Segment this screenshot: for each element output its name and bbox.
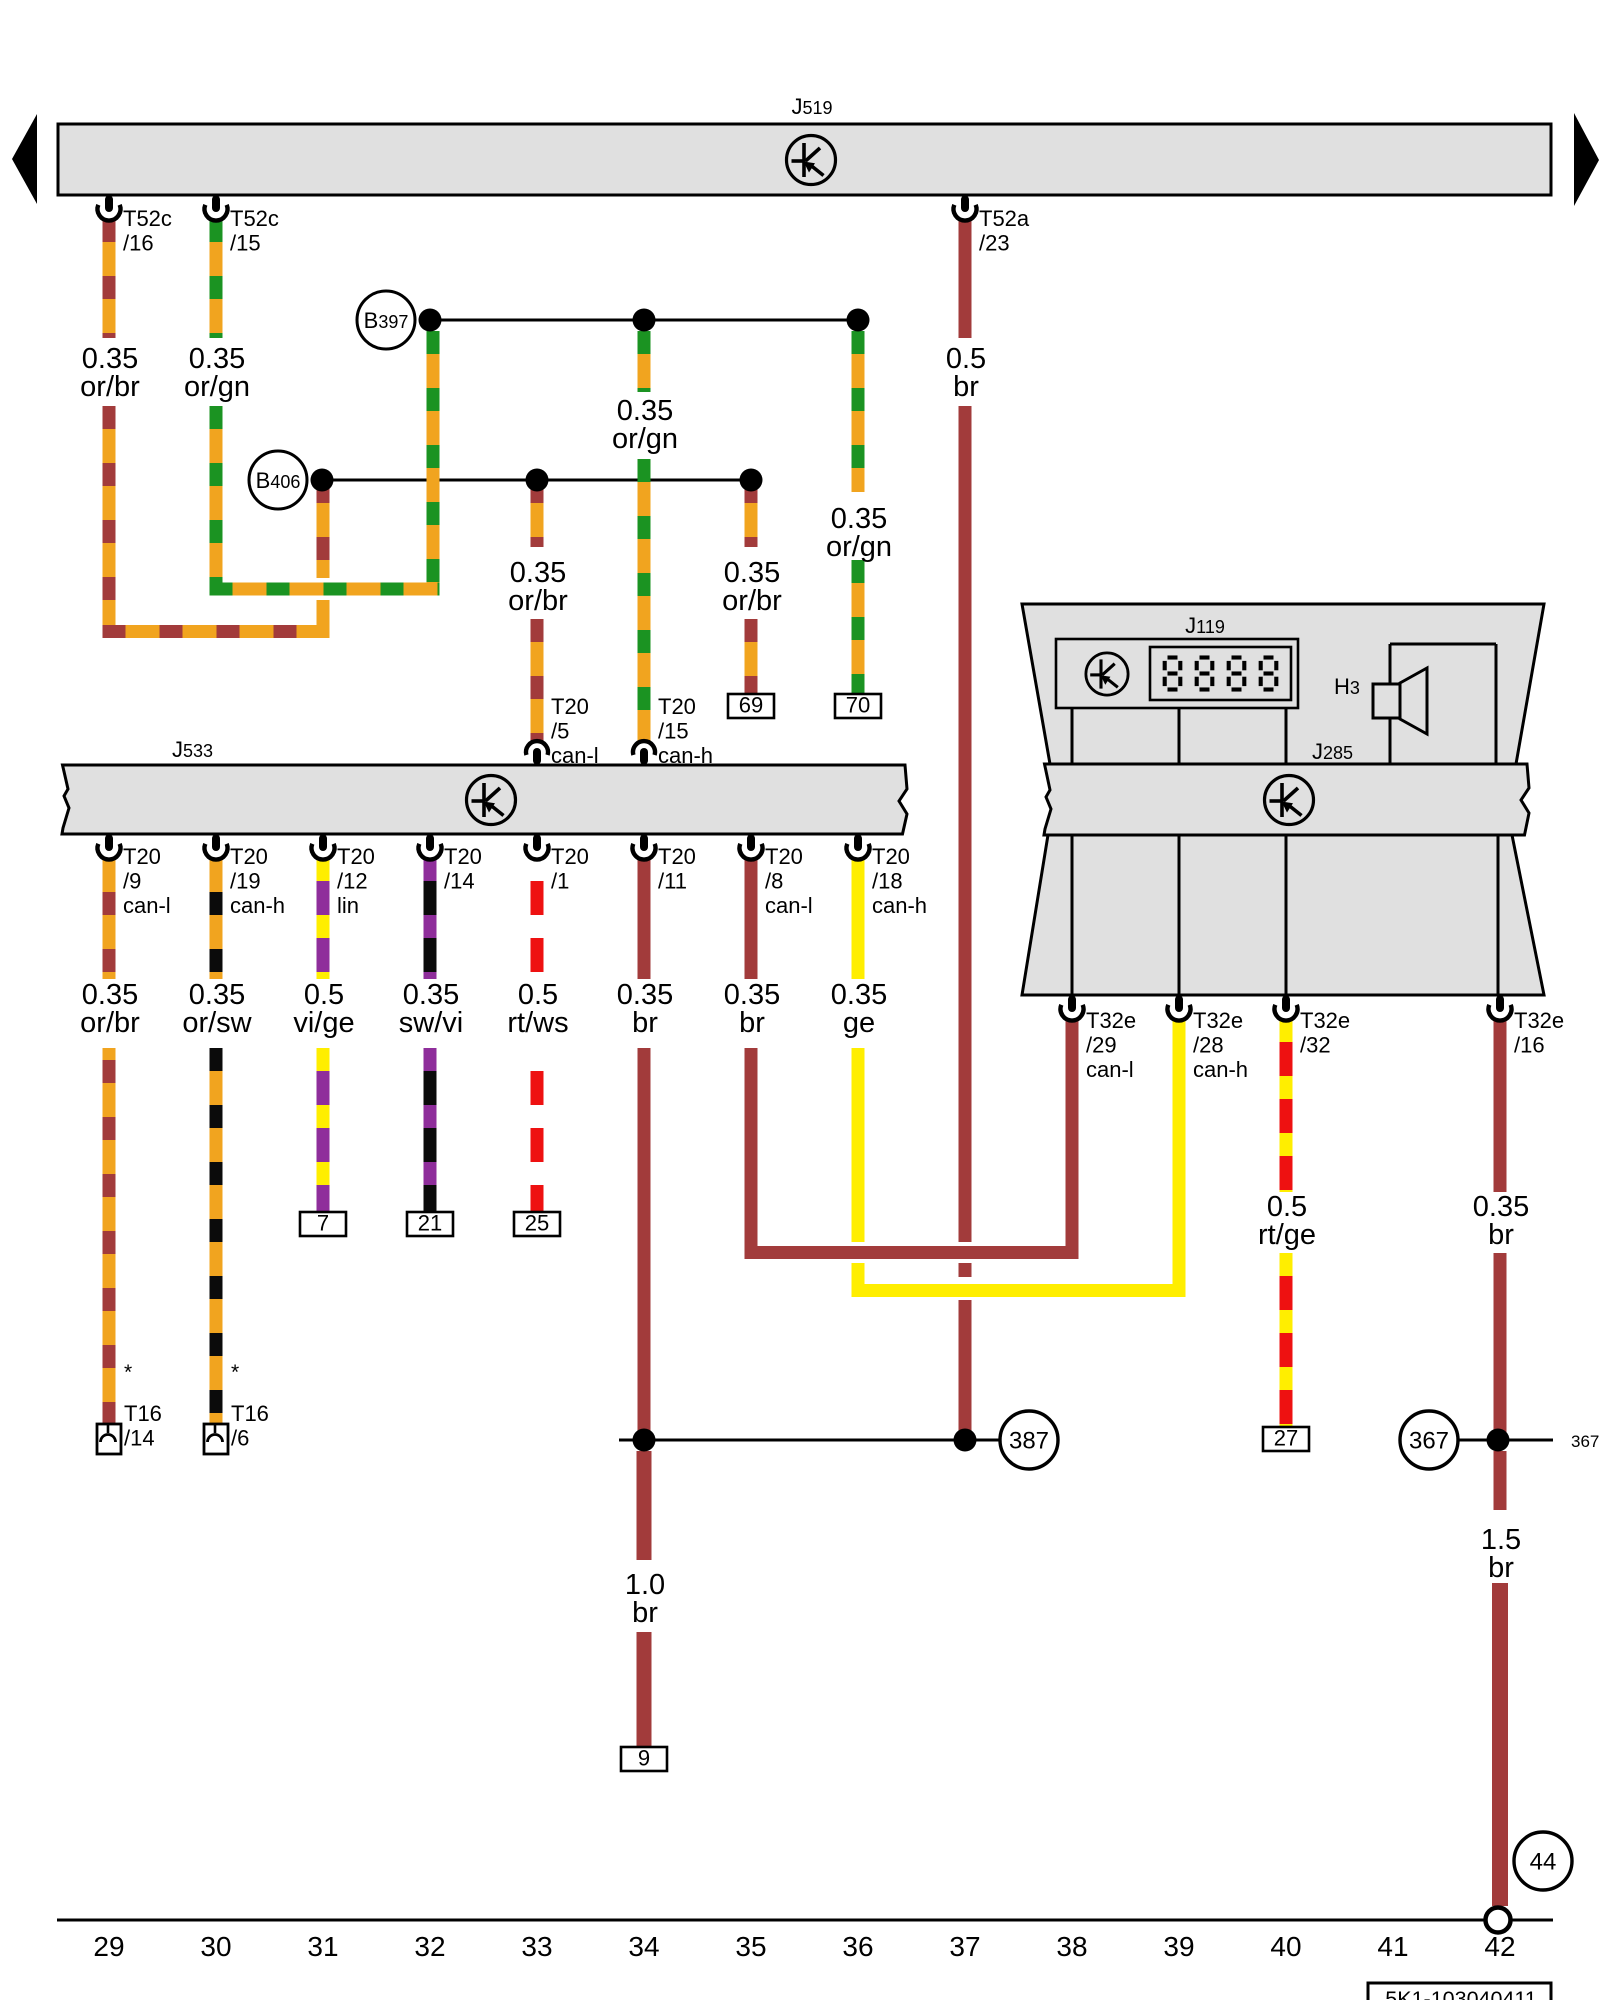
plug connector T16/14	[97, 1361, 162, 1454]
svg-text:T20: T20	[123, 844, 161, 869]
connector T20/15 can-h on J533 top	[633, 694, 713, 768]
svg-text:rt/ws: rt/ws	[507, 1007, 568, 1039]
svg-text:387: 387	[1009, 1427, 1049, 1454]
svg-text:or/br: or/br	[80, 371, 140, 403]
svg-text:T20: T20	[658, 694, 696, 719]
node B406	[249, 451, 307, 509]
svg-text:/32: /32	[1300, 1033, 1331, 1058]
terminal box 27	[1263, 1427, 1309, 1451]
node B397	[357, 291, 415, 349]
control unit J519 onboard supply control unit bar	[58, 94, 1551, 195]
svg-text:T52c: T52c	[123, 206, 172, 231]
svg-text:/11: /11	[658, 869, 687, 894]
terminal box 25	[514, 1212, 560, 1236]
connector T20/18 on J533 bottom	[847, 835, 928, 919]
svg-text:37: 37	[949, 1931, 980, 1962]
svg-text:J519: J519	[791, 94, 832, 119]
K-symbol in J533	[467, 776, 516, 825]
svg-text:T52c: T52c	[230, 206, 279, 231]
svg-text:or/sw: or/sw	[182, 1007, 252, 1039]
connector T20/19 on J533 bottom	[205, 835, 286, 919]
control unit J119 instrument cluster body	[1022, 604, 1544, 995]
svg-text:J533: J533	[172, 737, 213, 762]
svg-text:32: 32	[414, 1931, 445, 1962]
svg-text:br: br	[632, 1007, 658, 1039]
svg-text:br: br	[1488, 1552, 1514, 1584]
connector T32e/16 on J285	[1489, 996, 1565, 1058]
svg-text:25: 25	[525, 1211, 549, 1236]
K-symbol in J285	[1265, 776, 1314, 825]
svg-text:/23: /23	[979, 231, 1010, 256]
connector T20/5 can-l on J533 top	[526, 694, 599, 768]
svg-text:40: 40	[1270, 1931, 1301, 1962]
wire 0.5 br from J519 T52a/23 to ground node 387	[959, 219, 972, 1434]
svg-text:can-h: can-h	[230, 893, 285, 918]
svg-text:/16: /16	[1514, 1033, 1545, 1058]
svg-text:/16: /16	[123, 231, 154, 256]
svg-text:27: 27	[1274, 1426, 1298, 1451]
svg-text:39: 39	[1163, 1931, 1194, 1962]
svg-text:21: 21	[418, 1211, 442, 1236]
terminal box 7	[300, 1212, 346, 1236]
svg-text:T52a: T52a	[979, 206, 1030, 231]
wire 0.35 sw/vi J533 T20/14 to terminal 21	[424, 858, 437, 1212]
connector T32e/32 on J285	[1275, 996, 1351, 1058]
connector T20/1 on J533 bottom	[526, 835, 589, 894]
diagram number box 5K1-103040411	[1368, 1983, 1551, 2000]
junction dots on B406 line	[311, 469, 334, 492]
svg-text:br: br	[953, 371, 979, 403]
svg-text:B406: B406	[256, 468, 301, 493]
connector T20/14 on J533 bottom	[419, 835, 482, 894]
svg-text:*: *	[124, 1361, 132, 1384]
ground connection line 367	[1458, 1439, 1553, 1442]
svg-text:29: 29	[93, 1931, 124, 1962]
svg-text:/29: /29	[1086, 1033, 1117, 1058]
svg-text:*: *	[231, 1361, 239, 1384]
connector T20/12 on J533 bottom	[312, 835, 375, 919]
svg-text:T20: T20	[337, 844, 375, 869]
svg-text:T32e: T32e	[1300, 1008, 1350, 1033]
svg-text:367: 367	[1409, 1427, 1449, 1454]
svg-text:T32e: T32e	[1193, 1008, 1243, 1033]
svg-text:rt/ge: rt/ge	[1258, 1219, 1316, 1251]
svg-text:34: 34	[628, 1931, 659, 1962]
svg-text:/8: /8	[765, 869, 783, 894]
svg-text:or/gn: or/gn	[826, 531, 892, 563]
bottom coordinate axis line	[57, 1919, 1553, 1922]
terminal box 70	[835, 694, 881, 718]
wire 0.5 rt/ge J285 T32e/32 to terminal 27	[1280, 1019, 1293, 1427]
connector T32e/28 on J285	[1168, 996, 1249, 1083]
connector T52a/23 on J519	[953, 196, 1029, 256]
wire 0.35 or/br from J519 T52c/16 to node B406	[103, 219, 330, 638]
svg-text:can-l: can-l	[765, 893, 813, 918]
svg-text:vi/ge: vi/ge	[293, 1007, 354, 1039]
svg-text:can-l: can-l	[1086, 1057, 1134, 1082]
svg-text:br: br	[1488, 1219, 1514, 1251]
wire 0.5 vi/ge J533 T20/12 to terminal 7	[317, 858, 330, 1212]
svg-text:/5: /5	[551, 719, 569, 744]
junction dots on B397 line	[419, 309, 442, 332]
svg-text:44: 44	[1530, 1848, 1557, 1875]
wire 0.35 or/sw J533 T20/19 to connector T16/6	[210, 858, 223, 1424]
svg-text:5K1-103040411: 5K1-103040411	[1385, 1987, 1536, 2000]
ground symbol 387	[633, 1411, 1059, 1469]
svg-text:42: 42	[1484, 1931, 1515, 1962]
svg-text:or/br: or/br	[508, 585, 568, 617]
svg-text:H3: H3	[1334, 674, 1360, 699]
ground symbol 44	[1514, 1832, 1572, 1890]
wire 0.35 or/gn from J519 T52c/15 to node B397	[210, 219, 440, 596]
svg-text:367: 367	[1571, 1432, 1599, 1451]
svg-text:T16: T16	[231, 1401, 269, 1426]
svg-text:sw/vi: sw/vi	[399, 1007, 463, 1039]
ground ring terminal at 42	[1486, 1908, 1511, 1933]
svg-text:T20: T20	[230, 844, 268, 869]
wire br J533 T20/11 to ground 387 and terminal 9	[637, 858, 652, 1747]
bus continuation arrow right	[1574, 113, 1599, 206]
svg-text:or/gn: or/gn	[612, 423, 678, 455]
control unit J533 data bus diagnostic interface bar	[62, 737, 907, 834]
K-symbol in J119	[1086, 653, 1128, 695]
svg-text:T32e: T32e	[1086, 1008, 1136, 1033]
svg-text:T20: T20	[444, 844, 482, 869]
terminal box 69	[728, 694, 774, 718]
7-segment display 8888	[1165, 658, 1277, 690]
connector T20/8 on J533 bottom	[740, 835, 813, 919]
plug connector T16/6	[204, 1361, 269, 1454]
ground connection line 387	[619, 1439, 965, 1442]
node line B397	[430, 319, 858, 322]
svg-text:7: 7	[317, 1211, 329, 1236]
connector T52c/15 on J519	[205, 196, 279, 256]
svg-text:J285: J285	[1312, 739, 1353, 764]
svg-text:9: 9	[638, 1746, 650, 1771]
wire 0.35 br J533 T20/8 can-l to J285 T32e/29	[745, 858, 1079, 1259]
svg-text:T16: T16	[124, 1401, 162, 1426]
svg-text:J119: J119	[1185, 613, 1225, 638]
connector T20/11 on J533 bottom	[633, 835, 696, 894]
svg-text:/12: /12	[337, 869, 368, 894]
svg-text:or/br: or/br	[80, 1007, 140, 1039]
bus continuation arrow left	[12, 114, 37, 204]
svg-text:T32e: T32e	[1514, 1008, 1564, 1033]
svg-text:31: 31	[307, 1931, 338, 1962]
svg-text:can-h: can-h	[658, 743, 713, 768]
connector T32e/29 on J285	[1061, 996, 1137, 1083]
wire 0.35 or/gn node B397 to J533 T20/15	[638, 331, 651, 742]
wire 0.5 rt/ws J533 T20/1 to terminal 25	[531, 858, 544, 1212]
svg-text:T20: T20	[551, 844, 589, 869]
wire 0.35 or/br node B406 to terminal 69	[745, 480, 758, 694]
svg-text:33: 33	[521, 1931, 552, 1962]
svg-text:br: br	[739, 1007, 765, 1039]
control unit J285 bar in instrument cluster	[1044, 739, 1529, 835]
svg-text:T20: T20	[765, 844, 803, 869]
node line B406	[322, 479, 751, 482]
svg-text:can-l: can-l	[551, 743, 599, 768]
internal wires J119 to J285	[1072, 708, 1498, 995]
svg-text:/15: /15	[230, 231, 261, 256]
svg-text:/19: /19	[230, 869, 261, 894]
svg-text:/15: /15	[658, 719, 689, 744]
terminal box 21	[407, 1212, 453, 1236]
ground symbol 367	[1400, 1411, 1510, 1469]
svg-text:30: 30	[200, 1931, 231, 1962]
svg-text:lin: lin	[337, 893, 359, 918]
svg-text:70: 70	[846, 693, 870, 718]
svg-text:can-h: can-h	[1193, 1057, 1248, 1082]
svg-text:B397: B397	[364, 308, 409, 333]
display unit in J119	[1056, 639, 1298, 708]
svg-text:T20: T20	[658, 844, 696, 869]
svg-text:/6: /6	[231, 1426, 249, 1451]
svg-text:or/gn: or/gn	[184, 371, 250, 403]
axis numbers 29-42	[93, 1931, 1515, 1962]
svg-text:/9: /9	[123, 869, 141, 894]
svg-text:69: 69	[739, 693, 763, 718]
terminal box 9	[621, 1747, 667, 1771]
svg-text:41: 41	[1377, 1931, 1408, 1962]
svg-text:38: 38	[1056, 1931, 1087, 1962]
svg-text:br: br	[632, 1597, 658, 1629]
K-symbol in J519	[787, 136, 836, 185]
svg-text:/28: /28	[1193, 1033, 1224, 1058]
svg-text:/14: /14	[444, 869, 475, 894]
wire br J285 T32e/16 to ground 367 and 44	[1492, 1019, 1508, 1906]
svg-text:36: 36	[842, 1931, 873, 1962]
svg-text:/14: /14	[124, 1426, 155, 1451]
svg-text:or/br: or/br	[722, 585, 782, 617]
connector T20/9 on J533 bottom	[98, 835, 171, 919]
svg-text:/18: /18	[872, 869, 903, 894]
connector T52c/16 on J519	[97, 196, 171, 256]
svg-text:T20: T20	[872, 844, 910, 869]
wire 0.35 or/br node B406 to J533 T20/5	[531, 480, 544, 742]
svg-text:can-l: can-l	[123, 893, 171, 918]
wire 0.35 ge J533 T20/18 can-h to J285 T32e/28	[852, 858, 1186, 1297]
svg-text:ge: ge	[843, 1007, 875, 1039]
svg-text:/1: /1	[551, 869, 569, 894]
wire 0.35 or/gn node B397 to terminal 70	[852, 331, 865, 694]
warning buzzer H3	[1334, 644, 1496, 764]
svg-text:T20: T20	[551, 694, 589, 719]
svg-text:35: 35	[735, 1931, 766, 1962]
svg-text:can-h: can-h	[872, 893, 927, 918]
wire 0.35 or/br J533 T20/9 to connector T16/14	[103, 858, 116, 1424]
